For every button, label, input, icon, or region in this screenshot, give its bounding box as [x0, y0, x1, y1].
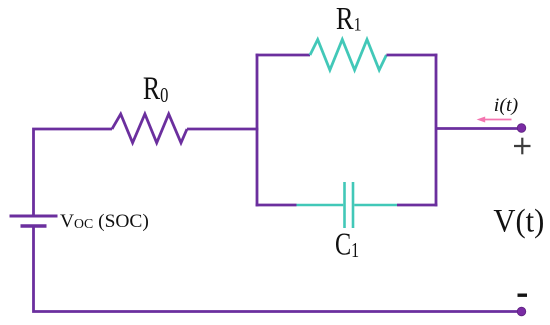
current arrow i(t): [477, 117, 512, 123]
wire: bottom return: [34, 226, 522, 312]
label i(t): [494, 95, 518, 116]
label VOC (SOC): [60, 211, 149, 232]
battery VOC: [10, 216, 58, 226]
wire: output to + terminal: [436, 127, 522, 130]
resistor R0: [112, 114, 187, 143]
label - polarity: [518, 294, 528, 297]
svg-text:R1: R1: [336, 2, 362, 36]
label R1: [336, 2, 362, 36]
wire: top branch left segment: [256, 54, 310, 57]
svg-text:i(t): i(t): [494, 95, 518, 116]
resistor R1: [310, 40, 386, 71]
node: + output terminal: [517, 124, 526, 133]
wire: top branch right segment: [386, 54, 437, 57]
svg-text:VOC (SOC): VOC (SOC): [60, 211, 149, 232]
wire: bottom branch left purple segment: [256, 204, 297, 207]
svg-text:R0: R0: [143, 71, 168, 107]
svg-text:V(t): V(t): [493, 203, 544, 239]
wire: R0 to node A: [187, 128, 258, 131]
label R0: [143, 71, 168, 107]
node: - output terminal: [517, 307, 526, 316]
wire: RC pair right branch vertical: [435, 54, 438, 207]
wire: bottom branch right purple segment: [397, 204, 437, 207]
capacitor C1: [297, 182, 398, 228]
label + polarity: [514, 138, 531, 155]
label C1: [335, 227, 359, 262]
svg-text:C1: C1: [335, 227, 359, 262]
wire: RC pair left branch vertical: [256, 54, 259, 207]
wire: battery top to R0 (left vertical + top horizontal): [34, 129, 113, 216]
label V(t): [493, 203, 544, 239]
